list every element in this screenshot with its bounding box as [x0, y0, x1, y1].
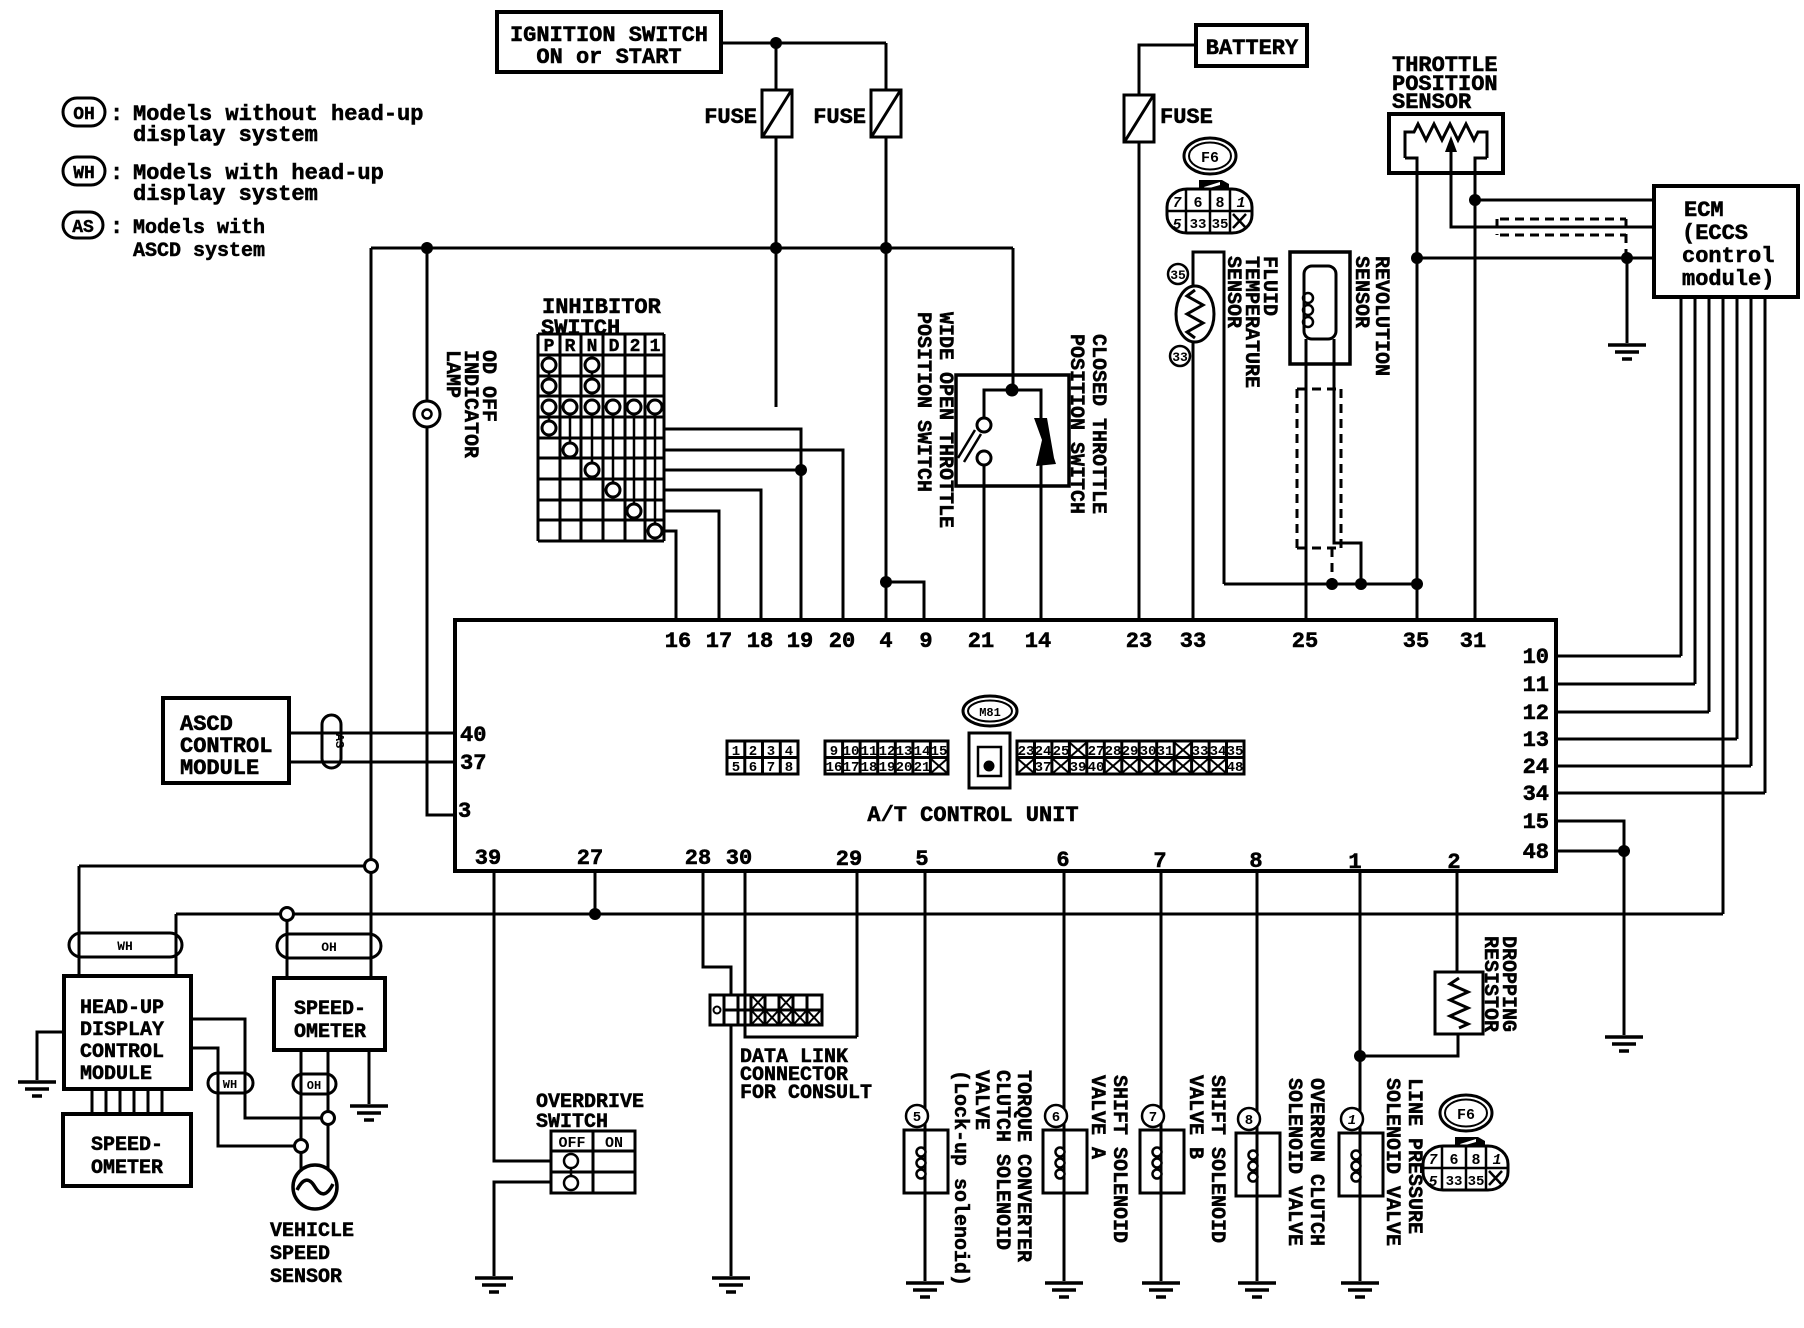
- svg-text:2: 2: [1447, 850, 1460, 875]
- svg-text:13: 13: [1523, 728, 1549, 753]
- head-up display control module box: [64, 976, 191, 1089]
- svg-text:OFF: OFF: [558, 1135, 585, 1152]
- svg-text:21: 21: [968, 629, 994, 654]
- bottom pin labels: [475, 846, 1461, 875]
- connector F6 top: [1167, 138, 1252, 234]
- wires speedometer to VSS: [300, 1050, 303, 1171]
- svg-text::: :: [110, 161, 123, 186]
- svg-text:ON or START: ON or START: [536, 45, 681, 70]
- svg-text:14: 14: [914, 744, 931, 760]
- svg-text:1: 1: [732, 744, 740, 760]
- fuse F3: [1124, 95, 1213, 142]
- svg-text:25: 25: [1292, 629, 1318, 654]
- ground DLC: [712, 1278, 750, 1292]
- wire HUD ground: [37, 1032, 64, 1080]
- svg-text:10: 10: [843, 744, 860, 760]
- overdrive switch table: [551, 1131, 635, 1193]
- line pressure solenoid valve: [1339, 871, 1383, 1281]
- svg-text:5: 5: [915, 847, 928, 872]
- ASCD control module box: [163, 698, 289, 783]
- wire pin 2 to dropping resistor: [1456, 871, 1459, 972]
- svg-text:OH: OH: [321, 940, 337, 955]
- svg-text:AS: AS: [72, 218, 94, 238]
- svg-text:6: 6: [1056, 848, 1069, 873]
- svg-text:DISPLAY: DISPLAY: [80, 1019, 164, 1042]
- svg-text:1: 1: [650, 337, 661, 357]
- fuse F2: [813, 90, 901, 137]
- svg-text:3: 3: [458, 799, 471, 824]
- ground ECM sensor ground: [1608, 345, 1646, 359]
- wire sensor bottom to pin 33: [1192, 342, 1195, 620]
- node VSS link upper: [322, 1112, 335, 1125]
- node pin9 jog: [880, 576, 892, 588]
- wire ignition to fuses: [721, 42, 886, 45]
- svg-text:16: 16: [665, 629, 691, 654]
- svg-text:35: 35: [1227, 744, 1244, 760]
- wire pin 28 to DLC: [703, 871, 731, 995]
- wide open throttle contacts: [958, 390, 1041, 465]
- wire dropping resistor to line pressure solenoid: [1360, 1034, 1458, 1056]
- wire ASCD to pin 40: [289, 732, 455, 735]
- connector strip group B: [825, 741, 948, 776]
- svg-text:display system: display system: [133, 123, 318, 148]
- wire OD switch to ground: [494, 1182, 551, 1276]
- svg-text:LINE PRESSURESOLENOID VALVE: LINE PRESSURESOLENOID VALVE: [1380, 1078, 1425, 1246]
- svg-text:1: 1: [1348, 1113, 1356, 1129]
- svg-text:display system: display system: [133, 182, 318, 207]
- svg-text:4: 4: [879, 629, 892, 654]
- svg-text:CONTROL: CONTROL: [80, 1041, 164, 1064]
- shield dashed around wiper wire: [1497, 219, 1626, 256]
- ground speedometer: [350, 1106, 388, 1120]
- svg-text:OH: OH: [73, 105, 95, 125]
- svg-text:Models with: Models with: [133, 217, 265, 240]
- wire TPS supply to ECM: [1475, 199, 1654, 202]
- svg-text:3: 3: [767, 744, 775, 760]
- svg-text:27: 27: [577, 846, 603, 871]
- svg-text:35: 35: [1170, 268, 1186, 283]
- WH harness connector small: [208, 1073, 253, 1093]
- svg-text:19: 19: [879, 760, 896, 776]
- ground HUD: [18, 1082, 56, 1096]
- wire pin11 to ECM: [1556, 683, 1695, 686]
- inhibitor contact ties: [549, 372, 655, 524]
- svg-text:37: 37: [1035, 760, 1052, 776]
- wire speedometer signal: [286, 914, 289, 978]
- svg-text:33: 33: [1192, 744, 1209, 760]
- node ignition split: [770, 37, 782, 49]
- top pin labels: [665, 629, 1486, 654]
- wire fuse2 down to pin 4: [885, 137, 888, 620]
- svg-text:18: 18: [861, 760, 878, 776]
- wire TPS left to pin 35: [1416, 173, 1419, 620]
- node bus/lamp: [421, 242, 433, 254]
- wire speedometer feed: [370, 866, 373, 978]
- svg-text:20: 20: [829, 629, 855, 654]
- pin callout 33: [1170, 346, 1190, 366]
- node pin 27 junction: [589, 908, 601, 920]
- svg-text:40: 40: [1088, 760, 1105, 776]
- node TPS supply wire: [1469, 194, 1481, 206]
- svg-text:OMETER: OMETER: [91, 1157, 163, 1180]
- inhibitor header labels: [544, 337, 661, 357]
- svg-text:13: 13: [896, 744, 913, 760]
- right pin labels: [1523, 645, 1549, 865]
- svg-text:25: 25: [1053, 744, 1070, 760]
- wire to fuse 1: [775, 43, 778, 90]
- svg-text:SENSOR: SENSOR: [270, 1266, 342, 1289]
- fluid temperature sensor body: [1176, 286, 1214, 342]
- wire bus down to WH connector 2: [175, 914, 178, 976]
- svg-text:40: 40: [460, 723, 486, 748]
- svg-text:7: 7: [1149, 1110, 1157, 1126]
- wire pin15: [1556, 821, 1624, 1035]
- wire pin 30 through DLC: [744, 871, 747, 1025]
- svg-text:31: 31: [1460, 629, 1486, 654]
- node switch common: [1006, 384, 1019, 397]
- A/T control unit box: [455, 620, 1556, 871]
- node bus/fuse1: [770, 242, 782, 254]
- wire WOT to pin 21: [983, 465, 986, 620]
- svg-text:ON: ON: [605, 1135, 623, 1152]
- wire pin13 to ECM: [1556, 738, 1737, 741]
- svg-text:34: 34: [1523, 782, 1549, 807]
- svg-text:OMETER: OMETER: [294, 1021, 366, 1044]
- svg-text:21: 21: [914, 760, 931, 776]
- AS connector capsule: [322, 715, 346, 768]
- speedometer box: [274, 978, 385, 1050]
- pin callout 35: [1168, 264, 1188, 284]
- connector strip group C: [1017, 741, 1244, 776]
- closed throttle contact: [1034, 418, 1056, 466]
- legend AS symbol: [63, 212, 265, 263]
- left pin labels: [458, 723, 486, 824]
- wire ECM pin f: [1750, 297, 1753, 766]
- wire fuse3 to pin 23: [1138, 142, 1141, 620]
- wire ECM pin d to speed signal bus: [1722, 297, 1725, 914]
- node rev sensor return: [1355, 578, 1367, 590]
- shift solenoid valve B: [1140, 871, 1184, 1281]
- wire battery to fuse 3: [1139, 45, 1196, 95]
- bus pin27 speed signal: [176, 913, 1723, 916]
- wire inhibitor N row to pin 19: [664, 470, 801, 620]
- svg-text:P: P: [544, 337, 555, 357]
- svg-text:5: 5: [913, 1110, 921, 1126]
- node dropping resistor junction: [1354, 1050, 1366, 1062]
- shift solenoid valve A: [1043, 871, 1087, 1281]
- battery box: [1196, 25, 1307, 66]
- svg-text:12: 12: [879, 744, 896, 760]
- data link connector body: [710, 995, 822, 1025]
- svg-text:9: 9: [919, 629, 932, 654]
- svg-text:15: 15: [1523, 810, 1549, 835]
- wire ECM pin a: [1680, 297, 1683, 656]
- svg-text:8: 8: [785, 760, 793, 776]
- ignition switch box: [497, 12, 721, 72]
- wire shield ground drop: [1626, 258, 1629, 343]
- wire ASCD to pin 37: [289, 761, 455, 764]
- node pin15/48: [1618, 845, 1630, 857]
- wires HUD to speedometer below: [92, 1089, 162, 1114]
- svg-text:5: 5: [732, 760, 740, 776]
- svg-text:27: 27: [1088, 744, 1105, 760]
- overrun clutch solenoid valve: [1236, 871, 1280, 1281]
- svg-text:20: 20: [896, 760, 913, 776]
- svg-text:FUSE: FUSE: [704, 105, 757, 130]
- svg-text:28: 28: [1105, 744, 1122, 760]
- svg-text:6: 6: [749, 760, 757, 776]
- svg-text:8: 8: [1245, 1113, 1253, 1129]
- svg-text:11: 11: [861, 744, 878, 760]
- sensor common line to pin35: [1224, 583, 1417, 586]
- throttle position sensor box: [1389, 114, 1503, 173]
- wire bus down to WH connector: [78, 866, 81, 976]
- node connector speedometer feed: [365, 860, 378, 873]
- wire sensor top to node line: [1193, 252, 1224, 584]
- svg-text:33: 33: [1180, 629, 1206, 654]
- svg-text:SPEED-: SPEED-: [294, 998, 366, 1021]
- wire ECM pin e: [1736, 297, 1739, 739]
- TPS potentiometer: [1405, 124, 1487, 173]
- bus ignition feed to HUD/speedometer: [79, 865, 371, 868]
- svg-text:2: 2: [630, 337, 641, 357]
- svg-text:7: 7: [1153, 849, 1166, 874]
- svg-text:WH: WH: [223, 1078, 237, 1092]
- wire inhibitor D row to pin 18: [664, 490, 761, 620]
- connector strip group A: [727, 741, 798, 776]
- wire pin 29: [856, 871, 859, 1037]
- wire inhibitor 2 row to pin 17: [664, 511, 719, 620]
- wire pin48: [1556, 850, 1624, 853]
- dropping resistor: [1435, 972, 1483, 1034]
- svg-text:SENSOR: SENSOR: [1392, 90, 1472, 115]
- node bus/fuse2: [880, 242, 892, 254]
- svg-text:15: 15: [931, 744, 948, 760]
- M81 connector block: [969, 733, 1010, 788]
- svg-text:WH: WH: [73, 164, 95, 184]
- svg-text::: :: [110, 102, 123, 127]
- wire DLC to pin 29 link: [745, 1025, 857, 1037]
- wire rev sensor return: [1334, 339, 1361, 584]
- wire HUD right upper: [191, 1019, 322, 1118]
- svg-text:module): module): [1682, 267, 1774, 292]
- fuse F1: [704, 90, 792, 137]
- legend WH symbol: [63, 157, 384, 207]
- svg-text:MODULE: MODULE: [80, 1063, 152, 1086]
- wire DLC ground: [730, 1025, 733, 1276]
- node pin35 line: [1411, 578, 1423, 590]
- svg-text:DROPPINGRESISTOR: DROPPINGRESISTOR: [1478, 936, 1519, 1032]
- svg-text:28: 28: [685, 846, 711, 871]
- svg-text:HEAD-UP: HEAD-UP: [80, 997, 164, 1020]
- svg-text:48: 48: [1523, 840, 1549, 865]
- wire bus to closed throttle switch: [1012, 248, 1015, 390]
- svg-text:WH: WH: [117, 939, 133, 954]
- svg-text:SPEED-: SPEED-: [91, 1134, 163, 1157]
- WH harness connector: [69, 933, 182, 957]
- wire HUD right lower: [191, 1048, 295, 1146]
- svg-text:29: 29: [836, 847, 862, 872]
- svg-text:30: 30: [726, 846, 752, 871]
- svg-text:16: 16: [826, 760, 843, 776]
- wire ECM pin b: [1694, 297, 1697, 684]
- svg-text:9: 9: [830, 744, 838, 760]
- wire inhibitor R row to pin 20: [664, 450, 843, 620]
- svg-text:34: 34: [1210, 744, 1227, 760]
- node connector speedometer signal: [281, 908, 294, 921]
- throttle switch box: [956, 375, 1069, 486]
- wire pin 9 jog: [886, 582, 924, 620]
- wire TPS ground bus to ECM: [1417, 257, 1654, 260]
- svg-text:BATTERY: BATTERY: [1206, 36, 1299, 61]
- OH harness connector: [277, 934, 381, 958]
- svg-text:CLOSED THROTTLEPOSITION SWITCH: CLOSED THROTTLEPOSITION SWITCH: [1064, 334, 1109, 514]
- revolution sensor box: [1290, 252, 1350, 364]
- wire CTS to pin 14: [1040, 464, 1043, 620]
- svg-text:39: 39: [1070, 760, 1087, 776]
- svg-text:23: 23: [1126, 629, 1152, 654]
- ignition bus horizontal: [371, 247, 1013, 250]
- svg-text:FOR CONSULT: FOR CONSULT: [740, 1082, 872, 1105]
- svg-text:14: 14: [1025, 629, 1051, 654]
- wire pin 27: [594, 871, 597, 914]
- wire pin10 to ECM: [1556, 655, 1681, 658]
- svg-text:OH: OH: [307, 1079, 321, 1093]
- svg-text:2: 2: [749, 744, 757, 760]
- wire lamp branch upper: [426, 248, 429, 402]
- svg-text:D: D: [609, 337, 620, 357]
- legend OH symbol: [63, 98, 423, 148]
- wire lamp to pin 3: [427, 427, 455, 815]
- svg-text:17: 17: [706, 629, 732, 654]
- wire pin 39 to OD switch: [494, 871, 551, 1161]
- svg-text:SPEED: SPEED: [270, 1243, 330, 1266]
- M81 connector oval: [963, 696, 1017, 726]
- wire pin34 to ECM: [1556, 792, 1765, 795]
- svg-text:29: 29: [1122, 744, 1139, 760]
- svg-text:ECM: ECM: [1684, 198, 1724, 223]
- svg-text:4: 4: [785, 744, 793, 760]
- svg-text:17: 17: [843, 760, 860, 776]
- wire to fuse 2: [885, 43, 888, 90]
- wire ECM pin g: [1764, 297, 1767, 793]
- svg-text:19: 19: [787, 629, 813, 654]
- OH harness connector small: [293, 1074, 336, 1094]
- inhibitor switch grid: [538, 334, 664, 541]
- svg-text:7: 7: [767, 760, 775, 776]
- svg-text:48: 48: [1227, 760, 1244, 776]
- ground OD switch: [475, 1278, 513, 1292]
- svg-text:FUSE: FUSE: [1160, 105, 1213, 130]
- ground pin15/48: [1605, 1037, 1643, 1051]
- svg-text:FUSE: FUSE: [813, 105, 866, 130]
- svg-text:MODULE: MODULE: [180, 756, 259, 781]
- wire left bus down: [370, 248, 373, 866]
- node TPS ground wire: [1411, 252, 1423, 264]
- svg-text:33: 33: [1172, 350, 1188, 365]
- wire TPS wiper shielded to ECM: [1451, 173, 1654, 227]
- svg-text:11: 11: [1523, 673, 1549, 698]
- svg-text:8: 8: [1249, 849, 1262, 874]
- wire inhibitor 1 row to pin 16: [664, 531, 676, 620]
- wire TPS right to pin 31: [1474, 173, 1477, 620]
- connector F6 bottom: [1423, 1095, 1508, 1191]
- svg-text:R: R: [565, 337, 576, 357]
- svg-text:OVERRUN CLUTCHSOLENOID VALVE: OVERRUN CLUTCHSOLENOID VALVE: [1282, 1078, 1327, 1246]
- shield dashed box rev sensor: [1297, 389, 1341, 580]
- torque converter clutch solenoid valve: [904, 871, 948, 1281]
- OD OFF indicator lamp: [414, 401, 440, 427]
- wire pin24 to ECM: [1556, 765, 1751, 768]
- svg-text:control: control: [1682, 244, 1774, 269]
- ECM box: [1654, 186, 1798, 297]
- vehicle speed sensor: [293, 1165, 337, 1209]
- svg-text:12: 12: [1523, 701, 1549, 726]
- wire speedometer ground: [368, 1050, 371, 1104]
- svg-text:24: 24: [1035, 744, 1052, 760]
- inhibitor contact circles: [542, 358, 662, 538]
- svg-text:10: 10: [1523, 645, 1549, 670]
- svg-text:VEHICLE: VEHICLE: [270, 1220, 354, 1243]
- node shield drain: [1326, 578, 1338, 590]
- svg-text:31: 31: [1157, 744, 1174, 760]
- node shield ground: [1621, 252, 1633, 264]
- wire rev sensor to pin 25: [1305, 339, 1308, 620]
- svg-text:N: N: [587, 337, 598, 357]
- svg-text:24: 24: [1523, 755, 1549, 780]
- speedometer box (head-up): [63, 1114, 191, 1186]
- svg-text:35: 35: [1403, 629, 1429, 654]
- svg-text:23: 23: [1018, 744, 1035, 760]
- svg-text:39: 39: [475, 846, 501, 871]
- wire pin12 to ECM: [1556, 711, 1709, 714]
- svg-text:18: 18: [747, 629, 773, 654]
- svg-text:6: 6: [1052, 1110, 1060, 1126]
- svg-text:ASCD system: ASCD system: [133, 240, 265, 263]
- node pin 19 junction: [795, 464, 807, 476]
- wire fuse1 down to inhibitor feed: [775, 137, 778, 407]
- wire ECM pin c: [1708, 297, 1711, 712]
- wire inhibitor P row to pin 19: [664, 429, 801, 470]
- svg-text:A/T CONTROL UNIT: A/T CONTROL UNIT: [867, 803, 1078, 828]
- svg-text:M81: M81: [979, 706, 1001, 720]
- svg-text:30: 30: [1140, 744, 1157, 760]
- svg-text:37: 37: [460, 751, 486, 776]
- svg-text:(ECCS: (ECCS: [1682, 221, 1748, 246]
- svg-text::: :: [110, 215, 123, 240]
- node VSS link lower: [295, 1140, 308, 1153]
- svg-text:AS: AS: [332, 734, 346, 748]
